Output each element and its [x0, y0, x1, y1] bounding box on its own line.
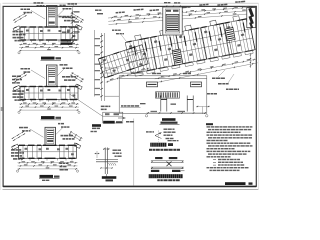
column detail caption — [102, 176, 117, 179]
main plan unit 5 core tower bump — [233, 16, 240, 22]
plan B upper-left leader text — [21, 68, 24, 70]
main plan unit 3 partitions — [180, 32, 186, 63]
junction detail lower-right label — [172, 170, 181, 172]
top dim row 2 — [108, 10, 255, 21]
beam detail top flange — [119, 78, 207, 80]
main plan unit 1 partitions — [130, 42, 136, 73]
weld note right texts — [164, 129, 168, 130]
arm fixtures — [103, 59, 106, 62]
plan C room band partition walls — [22, 145, 24, 158]
plan B dimension line 1 — [19, 103, 79, 105]
plan B room band mid wall — [20, 92, 78, 94]
weld note figure arrow — [155, 133, 162, 136]
title block text (rotated) — [248, 10, 254, 23]
beam detail outline box — [119, 76, 207, 114]
plan C upper-right leader text — [58, 123, 60, 125]
plan B heavy wall segments top — [21, 86, 27, 88]
plan B upper-right leader line — [58, 69, 65, 76]
bottom-center title hatched bar — [150, 143, 166, 147]
central tower inner walls — [165, 9, 180, 33]
sheet outer trim line bottom — [3, 189, 259, 191]
central tower top leader text — [164, 2, 167, 3]
sheet outer trim line right — [257, 3, 259, 190]
plan A upper-right leader text — [60, 5, 62, 7]
main plan unit 1 fixtures — [129, 45, 132, 48]
plan C core landing mark — [47, 140, 53, 142]
plan C top dimension ticks left — [12, 131, 25, 139]
plan B right annotation — [62, 76, 66, 78]
plan B dimension line 3 — [19, 109, 79, 111]
column detail bottom stub — [105, 174, 107, 177]
plan A heavy wall segments top — [21, 26, 27, 28]
weld note vertical tick — [158, 131, 160, 142]
plan A dimension line 2 — [19, 47, 79, 49]
main plan unit 1 balcony — [135, 72, 143, 77]
column detail right labels — [113, 150, 117, 151]
plan B room band partition walls — [24, 87, 26, 100]
plan B top dimension ticks left — [13, 73, 26, 81]
plan C left wing wall — [12, 144, 19, 149]
plan B left high annotation rows — [12, 76, 16, 78]
main plan unit 2 heavy walls — [151, 36, 156, 37]
column detail caption line2 — [106, 179, 114, 181]
top dim row 1 — [108, 7, 255, 18]
plan A upper-left leader text — [21, 9, 24, 11]
main plan unit 5 heavy walls — [224, 22, 229, 23]
beam detail top marks — [152, 73, 156, 74]
plan C extra annotation rows — [60, 163, 63, 165]
plan A top dimension ticks left — [13, 13, 26, 21]
building arm plan (rotated) — [98, 45, 150, 83]
plan B axis bubbles — [18, 111, 20, 113]
beam detail caption line 1 — [162, 118, 176, 121]
plan A right dim labels right — [74, 11, 80, 12]
plan A right dim labels left — [59, 16, 62, 18]
beam detail right column pair — [186, 96, 188, 112]
plan C caption — [40, 175, 54, 178]
plan C room band outer wall — [19, 145, 77, 158]
main plan unit 3 balcony — [185, 62, 193, 67]
plan B top dimension ticks right — [72, 73, 85, 81]
arm upper leader texts — [112, 30, 114, 31]
weld note left text — [146, 131, 149, 132]
drawing border frame — [3, 6, 256, 186]
plan C dimension line 3 — [18, 168, 78, 170]
horizontal connector lines — [105, 67, 120, 69]
column detail top tick — [103, 148, 110, 150]
main plan unit 4 heavy walls — [201, 27, 206, 28]
main plan unit 5 partitions — [228, 22, 234, 53]
main plan bottom dimension row 2 — [155, 63, 257, 83]
plan B left annotation stack — [13, 90, 17, 92]
detail D1 label text — [101, 106, 105, 108]
beam detail caption line 2 — [161, 122, 178, 124]
column detail left dimension cross — [95, 153, 100, 155]
plan C heavy wall segments top — [19, 144, 25, 146]
plan A stair flight hatch — [49, 8, 55, 10]
main plan stair core hatched 1 — [172, 49, 183, 65]
plan A left wing wall — [13, 26, 20, 31]
plan B upper-left leader line — [31, 70, 45, 79]
border frame bottom heavy line — [3, 186, 256, 188]
plan B caption underline — [41, 119, 62, 121]
beam detail caption underline — [160, 124, 180, 126]
plan B window sill dashes — [22, 100, 24, 102]
plan A room band mid wall — [20, 33, 78, 35]
vertical dimension ticks — [100, 35, 103, 37]
main plan top dimension band — [107, 0, 255, 25]
main plan bottom dimension row — [155, 59, 257, 79]
plan B stair core inner wall — [48, 67, 55, 85]
plan C interior fixtures — [25, 148, 28, 150]
beam detail base dimension numbers — [151, 111, 158, 112]
main plan unit 5 balcony — [233, 53, 241, 58]
plan B dimension line 2 — [19, 106, 79, 108]
junction detail caption hatched bar — [149, 174, 183, 178]
vertical dimension labels — [95, 38, 101, 39]
junction detail lower-left label — [151, 170, 159, 172]
plan C right wing wall — [74, 143, 81, 148]
beam detail hatched slab — [156, 92, 180, 98]
plan B right wing wall — [75, 84, 82, 89]
plan A axis bubbles — [18, 52, 20, 54]
main plan unit 4 outer wall — [200, 23, 232, 59]
plan A window sill dashes — [22, 40, 24, 42]
notes sub-list dashed items — [213, 159, 216, 161]
plan B core landing mark — [49, 81, 55, 83]
title block strip — [247, 8, 256, 28]
arm partitions — [102, 58, 108, 77]
arm heavy walls — [99, 57, 105, 59]
detail D1 inner marks — [103, 115, 123, 117]
plan A left annotation stack — [13, 31, 15, 33]
junction detail end ticks — [151, 161, 153, 163]
plan C dimension line 1 — [18, 162, 78, 164]
main plan unit 3 fixtures — [179, 35, 182, 38]
plan C upper-left leader line — [30, 129, 44, 138]
junction detail center node — [167, 162, 172, 167]
bottom-center title suffix — [168, 143, 173, 146]
central tower outline — [163, 7, 182, 35]
junction detail right label — [169, 157, 178, 159]
central tower hatched core — [166, 15, 179, 32]
under-plan leader texts right — [212, 78, 215, 80]
plan B upper-right leader text — [60, 64, 64, 66]
top dim leader texts — [116, 12, 119, 14]
plan A stair core inner wall — [48, 7, 55, 25]
detail D1 side caption right — [126, 121, 129, 123]
main plan unit 2 balcony — [160, 67, 168, 72]
plan A core landing mark — [49, 22, 55, 24]
beam detail column label — [140, 103, 146, 104]
bottom title bar text — [225, 182, 246, 185]
right-middle dimension mark — [196, 106, 210, 108]
main plan unit 4 fixtures — [204, 31, 207, 34]
main plan unit 4 partitions — [205, 27, 211, 58]
plan C right annotation — [61, 135, 64, 137]
right vertical dimension ticks — [250, 53, 252, 68]
plan C upper-left leader text — [19, 127, 23, 129]
plan A top dimension ticks right — [72, 13, 85, 21]
plan C caption subtitle — [42, 180, 45, 181]
plan C top dimension ticks right — [70, 131, 83, 139]
plan A room band outer wall — [20, 27, 78, 40]
main plan unit 2 core tower bump — [160, 30, 167, 36]
plan C window sill dashes — [21, 159, 23, 161]
junction detail left label — [155, 157, 162, 159]
beam detail base dimension line — [147, 112, 207, 114]
plan A heavy wall segments bottom — [21, 39, 26, 41]
bottom-center small note — [168, 140, 172, 141]
main plan unit 3 core tower bump — [185, 25, 192, 31]
main plan right end wall — [249, 18, 255, 49]
detail D1 arrow — [118, 117, 126, 119]
plan A dimension line 3 — [19, 50, 79, 52]
bottom-center subtitle — [149, 149, 152, 151]
beam detail left column pair — [160, 96, 162, 112]
main plan unit 2 partitions — [155, 37, 161, 68]
notes final line — [207, 167, 210, 168]
beam detail right bracket — [191, 82, 202, 87]
plan A right annotation — [62, 17, 65, 19]
notes heading — [206, 123, 213, 125]
main plan unit 5 fixtures — [227, 26, 230, 29]
plan C stair core inner wall — [47, 129, 54, 144]
junction detail bottom rails — [151, 166, 184, 168]
top dim row 3 — [109, 13, 256, 24]
main plan unit 3 heavy walls — [176, 31, 181, 32]
main building plan (rotated) — [124, 14, 257, 88]
plan A upper-left leader line — [31, 11, 45, 20]
main plan unit 5 outer wall — [223, 18, 255, 54]
plan A dimension line 1 — [19, 44, 79, 46]
central tower top ticks — [165, 5, 182, 7]
arm outer wall — [98, 45, 148, 78]
main plan unit 3 outer wall — [175, 28, 207, 64]
plan B heavy wall segments bottom — [21, 99, 26, 101]
plan A caption underline — [41, 59, 62, 61]
left margin fold mark — [1, 107, 3, 111]
plan A right dimension ticks — [71, 12, 74, 14]
main plan unit 4 core tower bump — [210, 20, 217, 26]
main plan unit 2 fixtures — [154, 40, 157, 43]
main plan unit 1 outer wall — [125, 37, 157, 73]
notes text lines — [207, 126, 211, 127]
plan B caption — [41, 116, 55, 119]
sheet outer trim line left — [0, 3, 2, 190]
column detail hatch marks — [109, 163, 111, 166]
plan B interior fixtures — [26, 89, 29, 91]
plan B left wing wall — [13, 85, 20, 90]
column detail lower ticks — [100, 167, 113, 169]
main plan unit 1 core tower bump — [135, 35, 142, 41]
sheet outer trim line top — [3, 2, 259, 4]
bottom title bar page mark — [249, 182, 253, 184]
beam detail left bracket — [147, 82, 158, 87]
layout divider line — [133, 119, 135, 186]
plan C upper-right leader line — [56, 128, 63, 135]
column detail horizontal member — [96, 159, 118, 161]
stray marks below plan B right — [91, 131, 94, 132]
plan A right dimension line — [71, 10, 73, 46]
main plan unit 4 balcony — [210, 57, 218, 62]
plan C axis bubbles — [16, 170, 18, 172]
central tower top marks — [166, 10, 171, 12]
plan C heavy wall segments bottom — [20, 157, 25, 159]
junction detail caption subtitle — [157, 179, 160, 181]
plan C stair core outer wall — [45, 127, 56, 145]
plan C stair flight hatch — [47, 130, 53, 132]
plan A stair core outer wall — [47, 6, 58, 28]
plan C caption underline — [39, 178, 60, 180]
beam detail axis bubbles — [145, 115, 147, 117]
column detail vertical member — [104, 148, 106, 175]
main plan unit 2 outer wall — [150, 33, 182, 69]
plan A right bold labels — [61, 39, 72, 41]
vertical grid line left — [94, 30, 96, 97]
plan A core top leader texts — [34, 2, 37, 4]
plan A upper-right leader line — [58, 10, 65, 17]
grid line top marks — [95, 10, 99, 11]
plan B room band outer wall — [20, 87, 78, 100]
plan A interior fixtures — [26, 30, 29, 32]
plan A right wing wall — [75, 25, 82, 30]
vertical grid line pair — [101, 33, 103, 101]
plan A room band partition walls — [24, 27, 26, 40]
detail D1 box — [103, 112, 123, 123]
under-plan leader lines — [218, 70, 225, 77]
detail D1 caption — [103, 121, 115, 124]
plan B stair core outer wall — [47, 65, 58, 87]
labels left of detail D1 — [92, 124, 101, 127]
plan B stair flight hatch — [49, 67, 55, 69]
main plan stair core hatched 2 — [225, 28, 235, 41]
title block strip — [247, 8, 256, 28]
plan C left annotation stack — [11, 149, 15, 151]
main plan unit 1 heavy walls — [126, 41, 131, 42]
plan A caption — [41, 57, 55, 60]
arm bottom dimension — [106, 68, 150, 82]
plan C room band mid wall — [19, 151, 77, 153]
plan C dimension line 2 — [18, 165, 78, 167]
detail D1 right leader text — [121, 105, 123, 107]
leader line from plan B to detail D1 — [70, 94, 103, 116]
junction detail top rails — [151, 160, 184, 162]
title block text (rotated) — [248, 8, 254, 17]
plan A right top leader text — [68, 3, 71, 4]
